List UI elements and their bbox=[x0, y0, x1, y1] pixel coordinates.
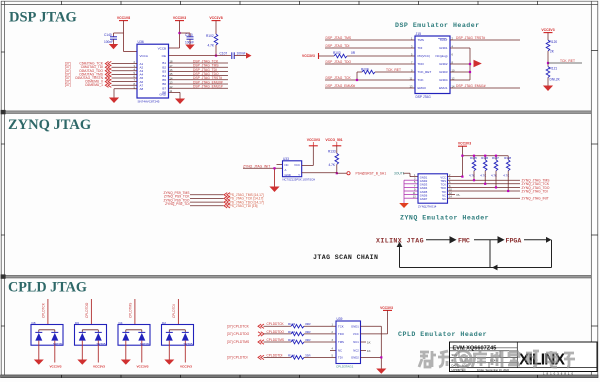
net DSP_JTAG_TCK bbox=[325, 76, 415, 81]
ground D2 bbox=[164, 360, 174, 365]
svg-text:DSP_JTAG_TDO: DSP_JTAG_TDO bbox=[326, 60, 352, 64]
svg-text:DSP_JTAG_EMU1#: DSP_JTAG_EMU1# bbox=[193, 85, 223, 89]
svg-text:OE: OE bbox=[162, 54, 166, 58]
ESD diode module D6 bbox=[75, 299, 107, 368]
resistor R136 bbox=[480, 156, 488, 184]
svg-text:0R: 0R bbox=[351, 51, 356, 55]
node VCCB tee bbox=[178, 32, 180, 34]
svg-text:NC2: NC2 bbox=[353, 349, 359, 353]
svg-text:VCC3V3: VCC3V3 bbox=[173, 16, 186, 20]
resistor R103 bbox=[333, 51, 415, 58]
wire VCCB bbox=[169, 47, 180, 49]
CPLD row 3 TMS bbox=[227, 338, 336, 344]
diode D6A bbox=[79, 331, 86, 333]
svg-text:DSP JTAG: DSP JTAG bbox=[416, 95, 432, 99]
wire VCC1V8 to VCCA bbox=[114, 33, 138, 52]
svg-text:TRST: TRST bbox=[440, 38, 448, 42]
svg-text:DSP_JTAG_TMS: DSP_JTAG_TMS bbox=[326, 36, 352, 40]
svg-text:CPLDTCK: CPLDTCK bbox=[42, 302, 46, 318]
svg-text:C140: C140 bbox=[104, 33, 112, 37]
connector J15 DSP emulator header bbox=[410, 32, 455, 99]
svg-text:4.7K: 4.7K bbox=[208, 44, 215, 48]
svg-text:VCC3V3: VCC3V3 bbox=[307, 138, 320, 142]
stub NC1 1K bbox=[361, 340, 371, 344]
svg-text:PD(VCC): PD(VCC) bbox=[418, 54, 431, 58]
svg-text:FMC: FMC bbox=[458, 238, 470, 245]
svg-text:GND1: GND1 bbox=[439, 46, 448, 50]
wire/net ZYNQ_JTAG_TCK bbox=[448, 182, 550, 186]
svg-text:EMU1: EMU1 bbox=[439, 86, 448, 90]
svg-text:U/PRINTED: U/PRINTED bbox=[452, 368, 466, 372]
pin numbers ZYNQ header left bbox=[413, 174, 416, 199]
svg-text:100nF: 100nF bbox=[237, 51, 246, 55]
ground under C160 bbox=[185, 45, 194, 50]
svg-text:33R: 33R bbox=[305, 330, 311, 334]
power VCCO_501 bbox=[325, 138, 342, 153]
svg-text:FPGA: FPGA bbox=[506, 238, 522, 245]
svg-text:TCK: TCK bbox=[441, 183, 447, 187]
svg-text:VCCB: VCCB bbox=[158, 47, 166, 51]
svg-text:VCC3V3: VCC3V3 bbox=[380, 306, 393, 310]
svg-text:NC: NC bbox=[338, 349, 342, 353]
svg-text:181036810: 181036810 bbox=[543, 372, 575, 376]
ground under R121 bbox=[543, 86, 553, 92]
svg-text:VCCO_501: VCCO_501 bbox=[325, 138, 342, 142]
op IC U33 single gate bbox=[283, 157, 316, 181]
svg-text:1K: 1K bbox=[367, 349, 371, 353]
ESD diode module D8 bbox=[31, 299, 63, 368]
svg-text:C6MEMU_1: C6MEMU_1 bbox=[85, 83, 103, 87]
svg-text:DSP_JTAG_EMU1#: DSP_JTAG_EMU1# bbox=[456, 84, 486, 88]
wire arrow to FMC bbox=[426, 237, 456, 243]
node TCK_RET junction bbox=[547, 62, 549, 64]
svg-text:ZYNQ Emulator Header: ZYNQ Emulator Header bbox=[400, 215, 489, 222]
svg-text:R135: R135 bbox=[470, 156, 477, 160]
svg-text:[37]: [37] bbox=[65, 83, 71, 87]
svg-text:VCC3V3: VCC3V3 bbox=[136, 364, 148, 368]
ground under C140 bbox=[109, 44, 118, 49]
svg-text:33R: 33R bbox=[305, 322, 311, 326]
net DSP_JTAG_TMS bbox=[325, 36, 415, 40]
diode D4A bbox=[122, 331, 129, 333]
svg-text:CPLDDTDO: CPLDDTDO bbox=[267, 330, 285, 334]
CPLD row 4 TDI bbox=[227, 353, 336, 359]
svg-text:33R: 33R bbox=[305, 353, 311, 357]
svg-text:DSP Emulator Header: DSP Emulator Header bbox=[395, 22, 480, 29]
svg-text:VCC3V3: VCC3V3 bbox=[49, 364, 61, 368]
svg-text:[37] CPLDTCK: [37] CPLDTCK bbox=[227, 324, 250, 328]
svg-text:R102: R102 bbox=[206, 34, 214, 38]
svg-text:GND1: GND1 bbox=[351, 324, 359, 328]
svg-text:VCC3V3: VCC3V3 bbox=[180, 364, 192, 368]
svg-text:PS4@SRST_B_SH1: PS4@SRST_B_SH1 bbox=[356, 172, 387, 176]
svg-text:CPLDTDI: CPLDTDI bbox=[172, 304, 176, 318]
svg-text:NC: NC bbox=[442, 197, 446, 201]
ZYNQ left bundle row 1 bbox=[163, 191, 263, 197]
svg-text:B8: B8 bbox=[162, 91, 166, 95]
diode D2B bbox=[182, 331, 189, 333]
svg-text:DSP_JTAG_TCK: DSP_JTAG_TCK bbox=[326, 76, 352, 80]
diode D4B bbox=[138, 331, 145, 333]
resistor R133 bbox=[328, 150, 339, 174]
net DSP_JTAG_TRST# bbox=[450, 36, 520, 40]
svg-text:GND: GND bbox=[285, 173, 291, 177]
svg-text:R133: R133 bbox=[328, 150, 336, 154]
svg-text:GND2: GND2 bbox=[420, 179, 428, 183]
off-page arrow GND bbox=[474, 60, 482, 67]
wire Y to header bbox=[302, 173, 418, 177]
wire A8 to ground bbox=[113, 89, 115, 98]
svg-text:SN74AVC8T245: SN74AVC8T245 bbox=[138, 99, 160, 103]
svg-text:[37] CPLDTMS: [37] CPLDTMS bbox=[227, 340, 250, 344]
svg-text:A8: A8 bbox=[140, 87, 144, 91]
wire GND1 right bbox=[361, 326, 382, 368]
svg-text:ZYNQ_PS9_TDI: ZYNQ_PS9_TDI bbox=[165, 202, 189, 206]
diode D2A bbox=[166, 331, 173, 333]
wire arrow to FPGA bbox=[474, 237, 504, 243]
svg-text:TDO: TDO bbox=[440, 186, 446, 190]
svg-text:33R: 33R bbox=[305, 338, 311, 342]
svg-text:DSP_JTAG_EMU0#: DSP_JTAG_EMU0# bbox=[326, 84, 356, 88]
svg-text:R120: R120 bbox=[550, 40, 558, 44]
wire/net ZYNQ_JTAG_INIT right bbox=[448, 197, 549, 201]
svg-text:CPLDDTMS: CPLDDTMS bbox=[267, 338, 285, 342]
ground ZYNQ header bbox=[399, 203, 409, 208]
resistor R138 bbox=[503, 156, 511, 191]
resistor R137 bbox=[491, 156, 499, 187]
svg-text:SRT05: SRT05 bbox=[140, 342, 149, 346]
svg-text:ZYNQ_JTAG_INIT: ZYNQ_JTAG_INIT bbox=[243, 164, 270, 168]
CPLD row 1 TCK bbox=[227, 322, 336, 328]
power VCC3V3 (middle) bbox=[173, 16, 186, 48]
wire ZYNQ header left GND bus bbox=[404, 180, 418, 203]
svg-text:TCK: TCK bbox=[338, 324, 344, 328]
svg-text:TDI: TDI bbox=[418, 46, 423, 50]
power VCC3V3 (CPLD header) bbox=[361, 306, 394, 334]
wire pullup bus bbox=[462, 156, 508, 160]
connector chevrons left bundle bbox=[105, 61, 111, 87]
ZYNQ left bundle row 2 bbox=[164, 195, 264, 201]
svg-text:PL: PL bbox=[457, 193, 461, 197]
svg-text:4.7K: 4.7K bbox=[329, 163, 336, 167]
svg-text:TDI: TDI bbox=[338, 356, 343, 360]
svg-text:DNI,2K: DNI,2K bbox=[550, 78, 561, 82]
svg-text:[37] CPLDTDO: [37] CPLDTDO bbox=[227, 332, 250, 336]
wire/net ZYNQ_JTAG_TDO bbox=[448, 186, 550, 190]
power VCC1V8 (right, over R102) bbox=[209, 16, 222, 34]
svg-text:TMS: TMS bbox=[338, 340, 344, 344]
CPLD row 2 TDO bbox=[227, 330, 336, 336]
svg-text:TDI: TDI bbox=[442, 190, 447, 194]
svg-text:SRT05: SRT05 bbox=[184, 342, 193, 346]
svg-text:TDO: TDO bbox=[418, 62, 425, 66]
wire/net ZYNQ_JTAG_TDI bbox=[448, 189, 548, 193]
svg-text:VCC3V3: VCC3V3 bbox=[302, 54, 315, 58]
svg-text:EMU0: EMU0 bbox=[418, 86, 427, 90]
wires U36 left A-pins bbox=[112, 64, 138, 89]
wire arrow to right + loop back bbox=[400, 240, 552, 268]
power VCC3V3 (far right divider) bbox=[541, 28, 554, 40]
svg-text:GND2: GND2 bbox=[351, 356, 359, 360]
svg-text:VCC: VCC bbox=[294, 163, 300, 167]
net DSP_JTAG_EMU1# bbox=[450, 84, 520, 88]
svg-text:A: A bbox=[285, 168, 287, 172]
pin numbers U36 bbox=[134, 60, 173, 93]
svg-text:[37] CPLDTDI: [37] CPLDTDI bbox=[227, 356, 248, 360]
wire header GND bus bbox=[450, 48, 470, 80]
capacitor C107 (series) bbox=[220, 51, 247, 59]
ground D8 bbox=[34, 360, 44, 365]
section separator 1 bbox=[1, 111, 591, 114]
svg-text:R136: R136 bbox=[481, 156, 488, 160]
section separator 2 bbox=[1, 275, 591, 278]
net labels DSP right bundle bbox=[193, 59, 223, 88]
svg-text:SRT05: SRT05 bbox=[53, 342, 62, 346]
wire VCC row1 bbox=[448, 176, 463, 178]
svg-text:ZYNQ_JTAG_TDI: ZYNQ_JTAG_TDI bbox=[522, 189, 548, 193]
wire U33 VCC bbox=[302, 146, 314, 166]
ground D6 bbox=[77, 360, 87, 365]
border zone ticks top bbox=[62, 1, 538, 5]
node Y junction bbox=[336, 172, 338, 174]
node GND bus joints bbox=[469, 63, 471, 65]
svg-text:GND6: GND6 bbox=[420, 193, 428, 197]
watermark 知乎@广州星嵌电子 bbox=[419, 351, 575, 367]
resistor R121 bbox=[546, 67, 560, 86]
svg-text:VCCA: VCCA bbox=[140, 54, 148, 58]
svg-text:ZYNQ JTAG: ZYNQ JTAG bbox=[8, 117, 91, 133]
resistor R135 bbox=[469, 156, 477, 180]
svg-text:1K: 1K bbox=[367, 340, 371, 344]
svg-text:R121: R121 bbox=[550, 67, 558, 71]
wire TCK_RET to border bbox=[548, 62, 582, 64]
svg-text:CPLD3TAG1: CPLD3TAG1 bbox=[336, 364, 354, 368]
ground under U33 bbox=[269, 187, 279, 193]
svg-text:CPLDDTCK: CPLDDTCK bbox=[267, 322, 285, 326]
node ring PS_SRST bbox=[347, 172, 350, 175]
ground left of U36 bbox=[109, 98, 119, 104]
resistor R102 bbox=[206, 34, 218, 56]
svg-text:CPLDTDO: CPLDTDO bbox=[85, 302, 89, 318]
svg-text:3OUT1: 3OUT1 bbox=[394, 172, 405, 176]
connector J13 ZYNQ emulator header bbox=[418, 174, 448, 209]
power VCC1V8 (left) bbox=[117, 16, 130, 33]
node OE junction bbox=[215, 55, 217, 57]
power VCC3V3 (U33) bbox=[307, 138, 320, 146]
svg-text:100nF: 100nF bbox=[185, 41, 194, 45]
svg-text:CPLDTMS: CPLDTMS bbox=[129, 303, 133, 318]
svg-text:NC: NC bbox=[285, 163, 289, 167]
resistor R109 TCK_RET bbox=[357, 67, 415, 80]
border zone ticks left bbox=[1, 52, 5, 326]
svg-text:VCC1V8: VCC1V8 bbox=[117, 16, 130, 20]
ZYNQ left bundle row 4 bbox=[165, 202, 257, 208]
svg-text:C107: C107 bbox=[220, 51, 228, 55]
svg-text:Y: Y bbox=[298, 173, 300, 177]
svg-text:GND5: GND5 bbox=[420, 190, 428, 194]
svg-text:CPLDDTDI: CPLDDTDI bbox=[267, 353, 283, 357]
ground right of U36 bbox=[175, 99, 185, 105]
svg-text:100nF: 100nF bbox=[104, 40, 113, 44]
svg-text:TCK: TCK bbox=[418, 78, 424, 82]
svg-text:GND7: GND7 bbox=[420, 197, 428, 201]
net ZYNQ_JTAG_INIT bbox=[243, 164, 283, 168]
net DSP_JTAG_EMU0# bbox=[325, 84, 415, 88]
svg-text:Friday, September 16, 2022: Friday, September 16, 2022 bbox=[477, 368, 510, 372]
svg-text:TCK_RET: TCK_RET bbox=[386, 68, 401, 72]
svg-text:VCC3V3: VCC3V3 bbox=[541, 28, 554, 32]
svg-text:NC1: NC1 bbox=[353, 340, 359, 344]
wire/net ZYNQ_JTAG_TMS bbox=[448, 179, 551, 183]
svg-text:GND3: GND3 bbox=[439, 70, 448, 74]
svg-text:GND2: GND2 bbox=[439, 62, 448, 66]
bottom border band bbox=[1, 375, 599, 378]
diode D6B bbox=[95, 331, 102, 333]
svg-text:VCC1V8: VCC1V8 bbox=[209, 16, 222, 20]
ESD diode module D2 bbox=[162, 299, 194, 368]
svg-text:TMS: TMS bbox=[418, 38, 424, 42]
wire stub PL bbox=[448, 193, 461, 197]
resistor R120 bbox=[546, 40, 557, 67]
svg-text:NC(plug): NC(plug) bbox=[435, 54, 447, 58]
power VCC3V3 (header PD pin) bbox=[302, 53, 334, 59]
wire OE line bbox=[169, 55, 232, 57]
power VCC3V3 (ZYNQ pullups) bbox=[458, 141, 471, 176]
op IC U36 buffer bbox=[137, 40, 169, 103]
pin numbers ZYNQ header right bbox=[449, 174, 452, 199]
svg-text:DSP_JTAG_TRST#: DSP_JTAG_TRST# bbox=[456, 36, 485, 40]
svg-text:TDO: TDO bbox=[338, 332, 345, 336]
ESD diode module D4 bbox=[118, 299, 150, 368]
connector J14 CPLD header bbox=[332, 317, 361, 368]
svg-text:GND4: GND4 bbox=[420, 186, 428, 190]
svg-text:NC7SZ125P5X 1G97SCH: NC7SZ125P5X 1G97SCH bbox=[283, 177, 316, 181]
svg-text:DSP JTAG: DSP JTAG bbox=[9, 10, 77, 26]
svg-text:ZYNQJTAG14: ZYNQJTAG14 bbox=[418, 205, 437, 209]
svg-text:R137: R137 bbox=[492, 156, 499, 160]
capacitor C140 bbox=[104, 33, 117, 44]
svg-text:GND1: GND1 bbox=[420, 175, 428, 179]
wire B8/GND to ground bbox=[179, 92, 181, 98]
wire stub row4 NC bbox=[330, 350, 336, 352]
net DSP_JTAG_TDI bbox=[325, 44, 415, 48]
svg-text:GND3: GND3 bbox=[420, 183, 428, 187]
svg-text:R138: R138 bbox=[504, 156, 511, 160]
capacitor C160 bbox=[180, 33, 195, 45]
svg-text:JTAG SCAN CHAIN: JTAG SCAN CHAIN bbox=[313, 254, 378, 261]
net DSP_JTAG_TDO bbox=[325, 60, 415, 64]
svg-text:TMS: TMS bbox=[440, 179, 446, 183]
svg-text:ZYNQ_JTAG_INIT: ZYNQ_JTAG_INIT bbox=[522, 197, 549, 201]
diode D8B bbox=[51, 331, 58, 333]
svg-text:VCC: VCC bbox=[353, 332, 359, 336]
ZYNQ left bundle row 3 bbox=[163, 198, 263, 204]
svg-text:VCC3V3: VCC3V3 bbox=[93, 364, 105, 368]
off-page arrow OE bbox=[246, 53, 252, 59]
diode D8A bbox=[35, 331, 42, 333]
svg-text:TCK_RET: TCK_RET bbox=[560, 59, 575, 63]
svg-text:B: B bbox=[452, 358, 454, 362]
svg-text:VCC: VCC bbox=[440, 175, 446, 179]
wire gnd drop of U33 bbox=[274, 168, 276, 186]
ground CPLD header bbox=[376, 369, 386, 374]
svg-text:GND4: GND4 bbox=[439, 78, 448, 82]
svg-text:CPLD JTAG: CPLD JTAG bbox=[8, 280, 87, 296]
svg-text:PS_JTAG_TDI [15]: PS_JTAG_TDI [15] bbox=[230, 204, 258, 208]
svg-text:NC: NC bbox=[442, 193, 446, 197]
svg-text:TCK_RET: TCK_RET bbox=[418, 70, 432, 74]
wires U36 right B-pins bbox=[169, 63, 229, 92]
svg-text:VCC3V3: VCC3V3 bbox=[458, 141, 471, 145]
ground D4 bbox=[121, 360, 131, 365]
svg-text:CPLD Emulator Header: CPLD Emulator Header bbox=[398, 331, 487, 338]
svg-text:DSP_JTAG_TDI: DSP_JTAG_TDI bbox=[326, 44, 350, 48]
border zone ticks right bbox=[591, 51, 598, 326]
svg-text:SRT05: SRT05 bbox=[97, 342, 106, 346]
stub NC2 1K bbox=[361, 349, 371, 353]
net labels DSP left bundle bbox=[65, 62, 71, 88]
